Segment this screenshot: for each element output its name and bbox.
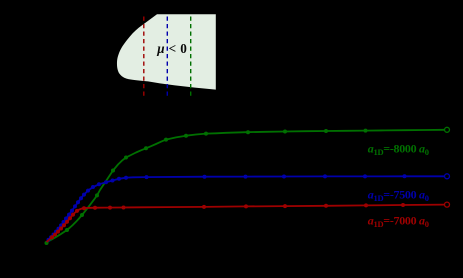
inset dashed line blue (166, 17, 168, 98)
inset dashed line red (143, 17, 145, 98)
inset dashed line green (190, 17, 192, 98)
blue curve (47, 176, 445, 242)
red curve (47, 205, 445, 242)
green curve (47, 130, 445, 243)
svg-text:μ < 0: μ < 0 (156, 41, 187, 56)
inset stability region (shaded blob) (117, 14, 216, 89)
